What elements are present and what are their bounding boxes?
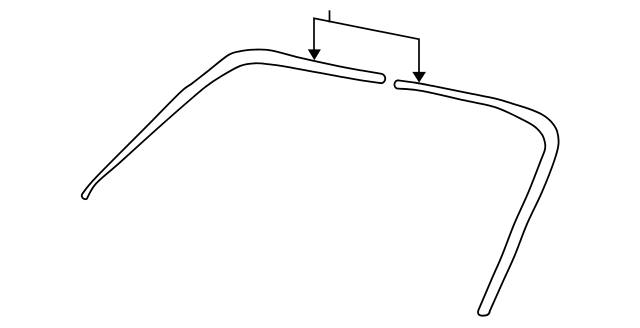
molding strip right piece	[394, 80, 558, 315]
arrowhead left	[308, 49, 321, 60]
arrowhead right	[412, 72, 426, 83]
molding strip left piece	[82, 50, 385, 200]
callout bracket leader	[314, 18, 419, 73]
callout stub line	[329, 10, 331, 22]
